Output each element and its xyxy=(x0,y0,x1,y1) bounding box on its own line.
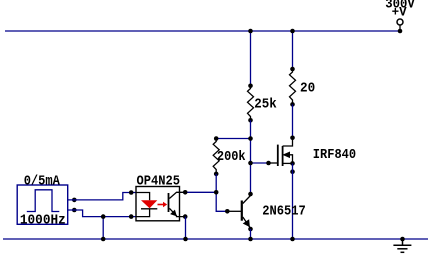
LED cathode lead xyxy=(136,209,150,217)
wire 25k branch from rail xyxy=(250,31,252,86)
node emitter xyxy=(248,227,253,232)
LED D1 red triangle xyxy=(141,200,157,208)
node emitter rail junction xyxy=(248,237,253,242)
node collector xyxy=(248,192,253,197)
wire 20 bottom to MOSFET drain xyxy=(292,104,294,137)
node MOSFET drain xyxy=(290,136,295,141)
wire 200k tap xyxy=(216,138,250,140)
node MOSFET source body xyxy=(290,161,295,166)
red coupling arrow xyxy=(158,202,168,207)
svg-text:0/5mA: 0/5mA xyxy=(24,173,61,189)
node MOSFET source pin xyxy=(290,169,295,174)
node gate lead xyxy=(266,161,271,166)
transistor Q2 2N6517 xyxy=(227,196,250,229)
wire supply stub xyxy=(399,26,401,32)
resistor R 200k xyxy=(213,139,219,174)
wire 20 branch from rail xyxy=(292,31,294,69)
svg-text:IRF840: IRF840 xyxy=(313,147,356,163)
node cathode rail junction xyxy=(101,237,106,242)
node source output top xyxy=(72,198,77,203)
wire gate tap xyxy=(251,162,269,164)
supply +V terminal circle xyxy=(397,19,403,25)
node opto pin collector xyxy=(183,190,188,195)
wire MOSFET source to ground rail xyxy=(292,163,294,239)
wire source top to opto anode xyxy=(68,193,137,200)
node opto pin cathode xyxy=(129,214,134,219)
node opto emitter rail junction xyxy=(183,237,188,242)
node 200k bottom xyxy=(214,172,219,177)
svg-text:200k: 200k xyxy=(217,149,246,165)
LED anode lead xyxy=(136,193,150,201)
node +V rail junction xyxy=(398,29,403,34)
node 200k tap junction xyxy=(248,136,253,141)
node source rail junction xyxy=(290,237,295,242)
svg-text:2N6517: 2N6517 xyxy=(262,204,306,220)
node 25k bottom xyxy=(248,118,253,123)
wire 25k bottom to collector node xyxy=(250,120,252,194)
LED cathode bar xyxy=(141,208,157,210)
source box V1 xyxy=(17,185,67,224)
node 200k top xyxy=(214,136,219,141)
pulse waveform xyxy=(27,190,60,212)
node 20 bottom xyxy=(290,102,295,107)
transistor Q1 IRF840 MOSFET xyxy=(269,138,293,166)
phototransistor xyxy=(169,192,186,216)
wire 200k bottom to base path xyxy=(216,174,227,211)
svg-text:OP4N25: OP4N25 xyxy=(137,173,181,189)
node opto pin anode xyxy=(129,190,134,195)
svg-text:20: 20 xyxy=(300,80,315,96)
node opto-200k junction xyxy=(214,190,219,195)
node opto pin emitter xyxy=(183,214,188,219)
node rail x293 xyxy=(290,29,295,34)
svg-text:+V: +V xyxy=(392,5,407,20)
resistor R 25k xyxy=(248,86,254,121)
node source output bottom xyxy=(72,208,77,213)
node gate tap junction xyxy=(248,161,253,166)
optocoupler U1 OP4N25 box xyxy=(136,187,180,221)
svg-text:25k: 25k xyxy=(254,96,276,112)
svg-text:1000Hz: 1000Hz xyxy=(20,212,66,228)
wire bottom ground rail xyxy=(3,238,428,240)
wire emitter to ground rail xyxy=(250,229,252,239)
wire source bottom to opto cathode xyxy=(68,210,137,217)
node rail x251 xyxy=(248,29,253,34)
node 25k top xyxy=(248,84,253,89)
wire opto emitter to ground rail xyxy=(185,217,187,239)
ground xyxy=(393,239,411,252)
wire opto collector to 200k junction xyxy=(185,191,216,193)
resistor R 20 xyxy=(290,69,296,104)
node 20 top xyxy=(290,67,295,72)
node base junction xyxy=(225,209,230,214)
node cathode junction xyxy=(101,214,106,219)
node ground rail junction xyxy=(400,237,405,242)
wire top +V rail xyxy=(5,30,400,32)
wire cathode net to ground rail xyxy=(102,217,104,239)
